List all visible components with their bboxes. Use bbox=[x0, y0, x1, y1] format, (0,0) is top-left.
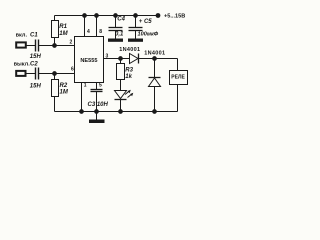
svg-text:1M: 1M bbox=[59, 31, 68, 37]
relay K1 bbox=[170, 71, 188, 112]
button ВКЛ (sensor plate) bbox=[16, 42, 26, 47]
resistor R3 bbox=[117, 59, 125, 91]
resistor R2 bbox=[52, 74, 59, 112]
svg-text:R1: R1 bbox=[59, 24, 67, 30]
svg-text:5: 5 bbox=[99, 83, 102, 89]
ground symbol under C5 bbox=[128, 39, 143, 42]
LED HL1 bbox=[115, 90, 134, 114]
node: R2/C2/pin6 junction bbox=[52, 71, 57, 76]
node: R1/C1/pin2 junction bbox=[52, 43, 57, 48]
wire: pin 3 output bbox=[104, 58, 130, 60]
ground symbol under C4 bbox=[108, 39, 123, 42]
node: pin3/R3/VD1 junction bbox=[118, 56, 123, 61]
pin 5 wire to C3 bbox=[96, 83, 98, 90]
resistor R1 bbox=[52, 16, 59, 46]
svg-text:1k: 1k bbox=[125, 74, 132, 80]
svg-text:C1: C1 bbox=[30, 32, 38, 38]
diode VD1 1N4001 bbox=[130, 54, 155, 64]
capacitor C2 bbox=[36, 68, 39, 80]
svg-text:15Н: 15Н bbox=[30, 54, 42, 60]
capacitor C4 bbox=[109, 13, 123, 38]
svg-text:1N4001: 1N4001 bbox=[119, 47, 140, 53]
pin 8 wire bbox=[94, 13, 99, 36]
svg-text:выкл.: выкл. bbox=[14, 61, 31, 67]
wire: button ВКЛ to C1 bbox=[27, 45, 36, 47]
capacitor C3 bbox=[91, 90, 103, 114]
diode VD2 1N4001 (flyback) bbox=[149, 59, 161, 114]
wire: to relay bbox=[155, 59, 178, 71]
svg-text:6: 6 bbox=[71, 66, 74, 72]
svg-text:15Н: 15Н bbox=[30, 84, 42, 90]
svg-text:R2: R2 bbox=[60, 83, 68, 89]
node: VD1/VD2/relay junction bbox=[152, 56, 157, 61]
svg-text:C2: C2 bbox=[30, 61, 38, 67]
svg-text:вкл.: вкл. bbox=[16, 33, 28, 39]
wire: button ВЫКЛ to C2 bbox=[26, 73, 35, 75]
pin 1 wire to ground rail bbox=[79, 83, 84, 114]
capacitor C1 bbox=[36, 40, 39, 52]
svg-text:C4: C4 bbox=[117, 17, 125, 23]
svg-text:+ C5: + C5 bbox=[139, 19, 153, 25]
wire: C2 to pin 6 of NE555 bbox=[39, 73, 75, 75]
power terminal +5...15V bbox=[156, 13, 161, 18]
power rail +V bbox=[55, 15, 159, 17]
ground symbol under C3 bbox=[89, 112, 105, 124]
timer IC NE555 bbox=[75, 37, 104, 83]
bottom ground rail bbox=[55, 111, 178, 113]
svg-text:NE555: NE555 bbox=[80, 58, 97, 64]
svg-text:1M: 1M bbox=[60, 89, 69, 95]
svg-text:C3 10Н: C3 10Н bbox=[88, 102, 109, 108]
svg-text:1N4001: 1N4001 bbox=[144, 50, 165, 56]
wire: C1 to pin 2 of NE555 bbox=[39, 45, 75, 47]
capacitor C5 (electrolytic) bbox=[129, 13, 143, 38]
svg-text:РЕЛЕ: РЕЛЕ bbox=[171, 74, 185, 80]
svg-text:+5...15В: +5...15В bbox=[164, 13, 185, 19]
svg-text:3: 3 bbox=[106, 54, 109, 60]
pin 4 wire bbox=[82, 13, 87, 36]
svg-text:2: 2 bbox=[70, 40, 73, 46]
svg-text:4: 4 bbox=[87, 29, 90, 35]
svg-text:R3: R3 bbox=[125, 67, 133, 73]
svg-text:0,1: 0,1 bbox=[115, 31, 124, 37]
svg-text:8: 8 bbox=[99, 29, 102, 35]
button ВЫКЛ (sensor plate) bbox=[16, 71, 25, 76]
svg-text:100мкФ: 100мкФ bbox=[138, 31, 159, 37]
svg-text:1: 1 bbox=[84, 83, 87, 89]
